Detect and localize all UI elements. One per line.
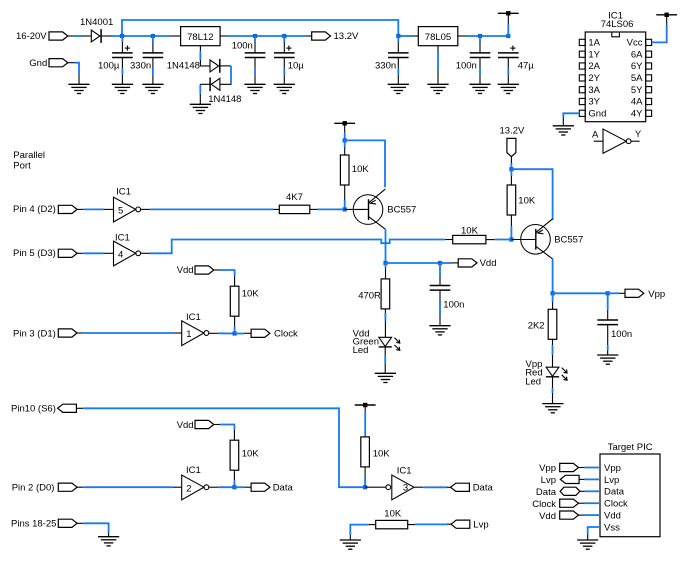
- svg-text:330n: 330n: [130, 61, 151, 72]
- svg-text:Pin10 (S6): Pin10 (S6): [11, 404, 56, 415]
- ground: [427, 84, 448, 93]
- power terminal: [355, 403, 376, 407]
- capacitor C6 100n: [470, 53, 491, 58]
- svg-text:1Y: 1Y: [588, 49, 600, 60]
- wire: [77, 332, 182, 334]
- wire: [310, 208, 343, 210]
- diode D1 1N4001 label: [80, 17, 113, 28]
- wire: [511, 239, 535, 241]
- node junction: [509, 237, 513, 241]
- resistor R10 10K label: [384, 508, 402, 519]
- wire: [479, 58, 481, 84]
- wire: [579, 502, 601, 504]
- svg-text:13.2V: 13.2V: [334, 31, 359, 42]
- wire: [507, 13, 509, 36]
- op-amp IC1 gate3 title: [397, 466, 412, 477]
- wire: [344, 123, 346, 140]
- op-amp IC1 gate1 title: [186, 312, 201, 323]
- wire: [580, 490, 600, 492]
- wire: [220, 35, 312, 37]
- svg-text:Vcc: Vcc: [627, 38, 643, 49]
- node junction: [343, 207, 347, 211]
- wire: [439, 291, 441, 326]
- node junction: [478, 34, 482, 38]
- svg-text:BC557: BC557: [554, 234, 583, 245]
- node A label: [592, 129, 599, 140]
- connector 16-20V: [49, 32, 68, 40]
- node junction: [232, 485, 236, 489]
- connector Clock: [560, 499, 579, 507]
- svg-text:1N4148: 1N4148: [208, 94, 241, 105]
- wire: [579, 514, 601, 516]
- svg-text:1N4001: 1N4001: [80, 17, 113, 28]
- svg-text:1N4148: 1N4148: [167, 61, 200, 72]
- diode D1 1N4001: [91, 29, 101, 43]
- node junction: [363, 485, 367, 489]
- capacitor C3 100n: [245, 53, 266, 58]
- wire: [552, 259, 554, 293]
- connector Vdd: [560, 511, 579, 519]
- resistor R3 label: [242, 289, 260, 300]
- diode D2 1N4148: [210, 59, 220, 73]
- svg-text:Pin 5 (D3): Pin 5 (D3): [13, 248, 56, 259]
- op-amp inverter symbol: [594, 129, 640, 153]
- svg-text:Vss: Vss: [604, 522, 620, 533]
- diode D3 1N4148 label: [208, 94, 241, 105]
- svg-text:IC1: IC1: [115, 233, 130, 244]
- wire: [68, 35, 92, 37]
- connector Vpp: [560, 463, 579, 471]
- svg-text:Clock: Clock: [274, 328, 298, 339]
- svg-text:Vdd: Vdd: [177, 265, 194, 276]
- svg-text:BC557: BC557: [387, 205, 416, 216]
- wire: [77, 208, 113, 210]
- wire: [397, 36, 399, 53]
- node Vdd label: [480, 258, 497, 269]
- wire: [552, 377, 554, 404]
- svg-text:IC1: IC1: [116, 186, 131, 197]
- node junction: [383, 261, 387, 265]
- node Data label: [273, 483, 294, 494]
- ground: [577, 540, 598, 549]
- node junction: [396, 34, 400, 38]
- ground: [375, 373, 396, 382]
- wire: [385, 263, 387, 279]
- wire: [652, 16, 667, 43]
- svg-text:16-20V: 16-20V: [16, 31, 47, 42]
- svg-text:1A: 1A: [588, 38, 600, 49]
- svg-text:4: 4: [118, 250, 123, 261]
- wire: [77, 523, 109, 536]
- connector Pin 4 (D2): [58, 205, 77, 213]
- node Data label: [473, 483, 494, 494]
- transistor Q2 BC557: [521, 219, 553, 259]
- resistor R6 10K label: [461, 226, 479, 237]
- node junction: [233, 331, 237, 335]
- svg-text:Pin 2 (D0): Pin 2 (D0): [12, 482, 55, 493]
- wire: [364, 405, 366, 437]
- svg-text:Data: Data: [536, 487, 557, 498]
- node Lvp label: [473, 519, 488, 530]
- connector Vdd: [195, 266, 214, 274]
- wire: [440, 262, 458, 264]
- svg-text:100µ: 100µ: [98, 61, 120, 72]
- svg-text:6Y: 6Y: [631, 61, 643, 72]
- capacitor C9 100n: [597, 320, 618, 325]
- ground: [498, 84, 519, 93]
- svg-text:Pins 18-25: Pins 18-25: [11, 519, 56, 530]
- svg-text:Led: Led: [525, 377, 541, 388]
- transistor Q1 label: [387, 205, 416, 216]
- resistor R8 label: [373, 448, 391, 459]
- wire: [510, 215, 512, 240]
- wire: [209, 486, 235, 488]
- svg-text:IC1: IC1: [186, 465, 201, 476]
- node Clock label: [532, 499, 556, 510]
- svg-text:2A: 2A: [588, 61, 600, 72]
- ground: [429, 326, 450, 335]
- connector 13.2V: [507, 138, 516, 156]
- svg-text:IC1: IC1: [186, 312, 201, 323]
- svg-text:2Y: 2Y: [588, 73, 600, 84]
- wire: [200, 84, 210, 104]
- svg-text:Clock: Clock: [604, 499, 628, 510]
- capacitor C4 polarity: [286, 46, 291, 51]
- svg-text:100n: 100n: [232, 41, 253, 52]
- wire: [68, 63, 79, 85]
- node junction: [506, 34, 510, 38]
- regulator U2 78L12: [181, 27, 221, 46]
- wire: [553, 292, 608, 294]
- wire: [588, 527, 600, 540]
- op-amp IC1 gate4: [114, 241, 141, 266]
- connector Pin 3 (D1): [58, 329, 77, 337]
- op-amp U1 74LS06 title: [601, 11, 634, 31]
- wire: [607, 325, 609, 355]
- node junction: [551, 291, 555, 295]
- wire: [579, 467, 601, 469]
- wire: [345, 140, 385, 187]
- op-amp IC1 gate2: [182, 475, 209, 500]
- power 13.2V terminal: [334, 121, 355, 125]
- svg-text:13.2V: 13.2V: [500, 125, 525, 136]
- diode LED1 labels: [353, 328, 379, 356]
- wire: [510, 157, 512, 169]
- wire: [398, 35, 418, 37]
- capacitor C7 47u: [498, 53, 519, 58]
- resistor R5 10K: [507, 185, 516, 215]
- capacitor C3 label: [232, 41, 253, 52]
- node Pins 18-25 label: [11, 519, 56, 530]
- node 13.2V label: [334, 31, 359, 42]
- capacitor C4 10u: [274, 53, 295, 58]
- svg-text:10K: 10K: [352, 164, 370, 175]
- connector Gnd: [49, 59, 68, 67]
- resistor R5 label: [518, 196, 536, 207]
- op-amp IC1 gate4 title: [115, 233, 130, 244]
- diode LED1 green: [379, 337, 400, 350]
- capacitor C1 100u: [112, 53, 133, 58]
- node 16-20V input label: [16, 31, 47, 42]
- ground: [244, 84, 265, 93]
- svg-text:Y: Y: [635, 129, 642, 140]
- svg-text:Pin 3 (D1): Pin 3 (D1): [13, 328, 56, 339]
- svg-text:Port: Port: [13, 160, 31, 171]
- svg-text:Lvp: Lvp: [541, 475, 556, 486]
- ground: [597, 355, 618, 364]
- wire: [76, 408, 365, 487]
- node Parallel Port label: [13, 150, 45, 171]
- node junction: [151, 34, 155, 38]
- op-amp IC1 gate2 title: [186, 465, 201, 476]
- capacitor C2 330n: [143, 53, 164, 58]
- resistor R1 label: [352, 164, 370, 175]
- wire: [209, 332, 235, 334]
- ground: [68, 84, 89, 93]
- resistor R4 470R: [381, 279, 390, 309]
- wire: [439, 263, 441, 286]
- svg-text:10µ: 10µ: [288, 61, 305, 72]
- node junction: [343, 138, 347, 142]
- wire: [507, 58, 509, 84]
- wire: [77, 486, 182, 488]
- node Vpp label: [648, 289, 665, 300]
- node Vdd label: [539, 511, 556, 522]
- connector Vpp: [625, 289, 644, 297]
- connector Lvp: [451, 520, 470, 528]
- ground: [340, 540, 361, 549]
- svg-text:Data: Data: [273, 483, 294, 494]
- svg-text:47µ: 47µ: [518, 61, 535, 72]
- svg-text:Vdd: Vdd: [604, 511, 621, 522]
- svg-text:Lvp: Lvp: [473, 519, 488, 530]
- capacitor C1 polarity: [125, 46, 130, 51]
- wire: [141, 208, 280, 210]
- svg-text:2: 2: [186, 483, 191, 494]
- node Pin 4 (D2) label: [13, 204, 56, 215]
- svg-text:A: A: [592, 129, 599, 140]
- wire: [384, 347, 386, 373]
- capacitor C7 polarity: [510, 46, 515, 51]
- regulator U3 78L05: [418, 27, 458, 46]
- node Pin 3 (D1) label: [13, 328, 56, 339]
- resistor R2 4K7: [279, 205, 310, 213]
- resistor R6 10K: [453, 235, 486, 243]
- wire: [510, 169, 512, 185]
- node Clock label: [274, 328, 298, 339]
- diode D2 1N4148 label: [167, 61, 200, 72]
- connector Data: [451, 483, 470, 491]
- svg-text:1: 1: [186, 329, 191, 340]
- ground: [542, 404, 563, 413]
- svg-text:3Y: 3Y: [588, 97, 600, 108]
- wire: [364, 467, 366, 487]
- svg-text:78L05: 78L05: [425, 32, 451, 43]
- capacitor C8 label: [443, 299, 464, 310]
- diode LED2 red: [546, 367, 567, 380]
- op-amp U1 74LS06 package: [579, 32, 651, 122]
- resistor R9 label: [242, 448, 260, 459]
- node Vdd label: [177, 265, 194, 276]
- svg-text:Vdd: Vdd: [480, 258, 497, 269]
- capacitor C8 100n: [430, 286, 451, 291]
- svg-text:330n: 330n: [375, 61, 396, 72]
- ground: [112, 84, 133, 93]
- wire: [437, 46, 439, 85]
- power Vcc terminal: [656, 13, 677, 17]
- resistor R4 470R label: [358, 290, 381, 301]
- capacitor C2 label: [130, 61, 151, 72]
- wire: [458, 35, 509, 37]
- svg-text:4K7: 4K7: [286, 192, 303, 203]
- capacitor C5 330n: [388, 53, 409, 58]
- wire: [234, 316, 236, 333]
- node junction: [120, 34, 124, 38]
- wire: [77, 252, 113, 254]
- svg-text:Vdd: Vdd: [539, 511, 556, 522]
- wire: [397, 58, 399, 84]
- capacitor C5 label: [375, 61, 396, 72]
- wire: [479, 36, 481, 53]
- wire: [152, 58, 154, 84]
- svg-text:5A: 5A: [631, 73, 643, 84]
- resistor R7 2K2: [548, 309, 557, 339]
- svg-text:4A: 4A: [631, 97, 643, 108]
- svg-text:Vdd: Vdd: [177, 420, 194, 431]
- node junction: [509, 167, 513, 171]
- wire: [350, 525, 375, 540]
- node Vdd label: [177, 420, 194, 431]
- wire: [101, 35, 180, 37]
- wire: [254, 36, 256, 53]
- wire: [365, 486, 386, 488]
- svg-text:Pin 4 (D2): Pin 4 (D2): [13, 204, 56, 215]
- svg-text:Target PIC: Target PIC: [608, 442, 653, 453]
- resistor R1 10K: [340, 155, 349, 185]
- svg-text:Vpp: Vpp: [539, 463, 556, 474]
- svg-text:Vpp: Vpp: [648, 289, 665, 300]
- capacitor C9 label: [611, 329, 632, 340]
- svg-text:Vpp: Vpp: [604, 463, 621, 474]
- resistor R9 10K: [230, 440, 239, 470]
- svg-text:74LS06: 74LS06: [601, 19, 634, 30]
- wire: [121, 36, 123, 53]
- op-amp IC1 gate5 title: [116, 186, 131, 197]
- transistor Q2 label: [554, 234, 583, 245]
- svg-text:10K: 10K: [242, 448, 260, 459]
- connector 13.2V: [312, 32, 331, 40]
- wire: [152, 36, 154, 53]
- wire: [552, 293, 554, 309]
- wire: [254, 58, 256, 84]
- capacitor C6 label: [456, 61, 477, 72]
- svg-text:10K: 10K: [384, 508, 402, 519]
- wire: [344, 185, 346, 209]
- svg-text:3A: 3A: [588, 85, 600, 96]
- power 5V terminal: [498, 11, 519, 15]
- svg-text:IC1: IC1: [397, 466, 412, 477]
- capacitor C1 label: [98, 61, 120, 72]
- wire: [386, 262, 441, 264]
- ground: [388, 84, 409, 93]
- wire: [607, 293, 609, 320]
- wire: [563, 113, 579, 126]
- ground: [553, 126, 574, 135]
- svg-text:78L12: 78L12: [187, 32, 213, 43]
- connector Lvp: [560, 475, 579, 483]
- wire: [283, 36, 285, 53]
- node Gnd input label: [29, 58, 47, 69]
- node Lvp label: [541, 475, 556, 486]
- svg-text:Clock: Clock: [532, 499, 556, 510]
- wire: [234, 486, 251, 488]
- diode LED2 labels: [525, 359, 542, 388]
- node Vpp label: [539, 463, 556, 474]
- svg-text:2K2: 2K2: [528, 321, 545, 332]
- node Pin10 (S6) label: [11, 404, 56, 415]
- ground: [190, 104, 211, 113]
- svg-text:Lvp: Lvp: [604, 475, 619, 486]
- capacitor C4 label: [288, 61, 305, 72]
- node Target PIC title: [608, 442, 653, 453]
- wire: [385, 229, 387, 263]
- wire 13.2V bypass rail: [122, 20, 398, 36]
- op-amp IC1 gate1: [182, 321, 209, 346]
- wire: [414, 486, 450, 488]
- connector Data: [251, 483, 270, 491]
- wire: [408, 523, 451, 525]
- node Data label: [536, 487, 557, 498]
- connector Data: [560, 487, 580, 495]
- connector Pin 5 (D3): [58, 249, 77, 257]
- node junction: [438, 261, 442, 265]
- wire: [511, 169, 552, 220]
- node junction: [282, 34, 286, 38]
- svg-text:Gnd: Gnd: [29, 58, 47, 69]
- wire: [200, 46, 210, 66]
- wire: [486, 239, 511, 241]
- connector Pin10 (S6): [58, 404, 77, 412]
- wire: [233, 470, 235, 487]
- wire: [384, 309, 386, 337]
- wire: [579, 478, 600, 480]
- svg-text:100n: 100n: [611, 329, 632, 340]
- wire: [214, 270, 235, 286]
- node 13.2V label: [500, 125, 525, 136]
- resistor R3 10K: [230, 286, 239, 316]
- resistor R8 10K: [361, 437, 370, 467]
- node junction: [606, 291, 610, 295]
- ground: [98, 537, 119, 546]
- node Y label: [635, 129, 642, 140]
- svg-text:Gnd: Gnd: [588, 109, 606, 120]
- node junction: [253, 34, 257, 38]
- connector Vdd: [195, 420, 214, 428]
- svg-text:6A: 6A: [631, 49, 643, 60]
- wire: [121, 58, 123, 84]
- svg-text:4Y: 4Y: [631, 109, 643, 120]
- svg-text:Data: Data: [604, 487, 625, 498]
- node Pin 5 (D3) label: [13, 248, 56, 259]
- node Target PIC pin labels: [604, 463, 628, 534]
- svg-text:100n: 100n: [456, 61, 477, 72]
- ground: [469, 84, 490, 93]
- svg-text:10K: 10K: [242, 289, 260, 300]
- wire: [220, 66, 231, 84]
- svg-text:100n: 100n: [443, 299, 464, 310]
- node Pin 2 (D0) label: [12, 482, 55, 493]
- svg-text:5Y: 5Y: [631, 85, 643, 96]
